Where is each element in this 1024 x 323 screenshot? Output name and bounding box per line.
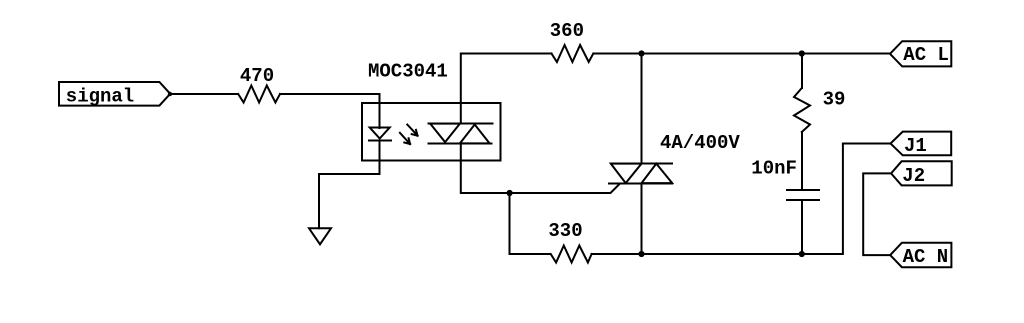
ground [309,228,331,244]
svg-text:J2: J2 [902,165,925,187]
node junction opto-gate [507,190,513,196]
wire R470 to LED anode [280,94,380,128]
wire triac top terminal [641,54,643,164]
node signal tip dot [168,92,172,96]
wire J2 to AC N [863,173,891,255]
wire junction down to bottom rail [509,193,511,254]
resistor R360 body [552,45,594,62]
svg-text:signal: signal [66,86,134,108]
phototriac left triangle [430,124,460,143]
resistor R330 body [551,246,592,263]
light arrow 2 [407,125,417,136]
node AC L flag [890,41,951,66]
svg-text:AC L: AC L [903,44,949,66]
resistor R39 body [794,88,810,132]
wire signal to R470 [170,93,238,95]
wire bottom rail left [510,253,551,255]
node J2 flag [891,161,952,185]
capacitor C1 top plate [787,189,819,191]
wire LED cathode to ground [319,141,380,229]
diode LED cathode bar [369,140,391,142]
node signal flag [59,82,170,106]
node junction snubber top [799,50,805,56]
svg-text:4A/400V: 4A/400V [660,132,740,154]
svg-text:39: 39 [823,89,846,111]
phototriac top bar [428,123,492,125]
wire phototriac bottom [461,144,510,194]
wire bottom rail right and up to J1 [592,144,891,255]
triac Q1 left triangle [611,164,642,184]
capacitor C1 bottom plate [787,199,819,201]
wire rail to R39 [801,54,803,89]
diode LED triangle [370,128,390,139]
wire C1 to bottom rail [801,201,803,254]
wire triac bottom terminal [641,184,643,255]
resistor R470 body [238,86,280,103]
triac Q1 top bar [611,163,672,165]
svg-text:360: 360 [550,20,584,42]
triac Q1 bottom bar [609,183,672,185]
svg-text:10nF: 10nF [751,158,797,180]
phototriac right triangle [460,125,490,144]
light arrow 1 [400,133,410,144]
svg-text:330: 330 [548,220,582,242]
svg-text:470: 470 [240,65,274,87]
node J1 flag [891,132,952,156]
node junction triac bottom [638,251,644,257]
triac Q1 right triangle [642,164,673,184]
svg-text:J1: J1 [904,135,927,157]
svg-text:MOC3041: MOC3041 [368,61,448,83]
wire R39 to C1 [801,132,803,189]
node AC N flag [890,243,951,268]
svg-text:AC N: AC N [903,246,949,268]
node junction snubber bottom [799,251,805,257]
wire phototriac top to rail and R360 [461,54,552,124]
phototriac bottom bar [428,143,491,145]
wire top rail right [593,53,890,55]
wire gate [510,184,620,193]
op-amp U1 MOC3041 box [362,103,501,161]
node junction triac top [638,50,644,56]
